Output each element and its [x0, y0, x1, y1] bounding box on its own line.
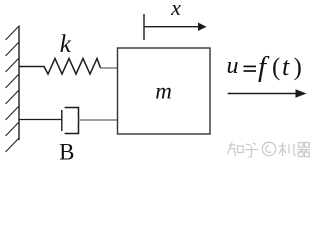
svg-text:): ) — [294, 54, 302, 81]
svg-text:(: ( — [272, 54, 280, 81]
svg-text:f: f — [258, 51, 270, 83]
svg-text:x: x — [170, 0, 181, 20]
svg-text:m: m — [155, 79, 172, 104]
svg-text:t: t — [282, 52, 290, 81]
svg-text:k: k — [60, 31, 72, 58]
svg-text:B: B — [59, 140, 74, 165]
svg-text:u: u — [227, 53, 239, 79]
